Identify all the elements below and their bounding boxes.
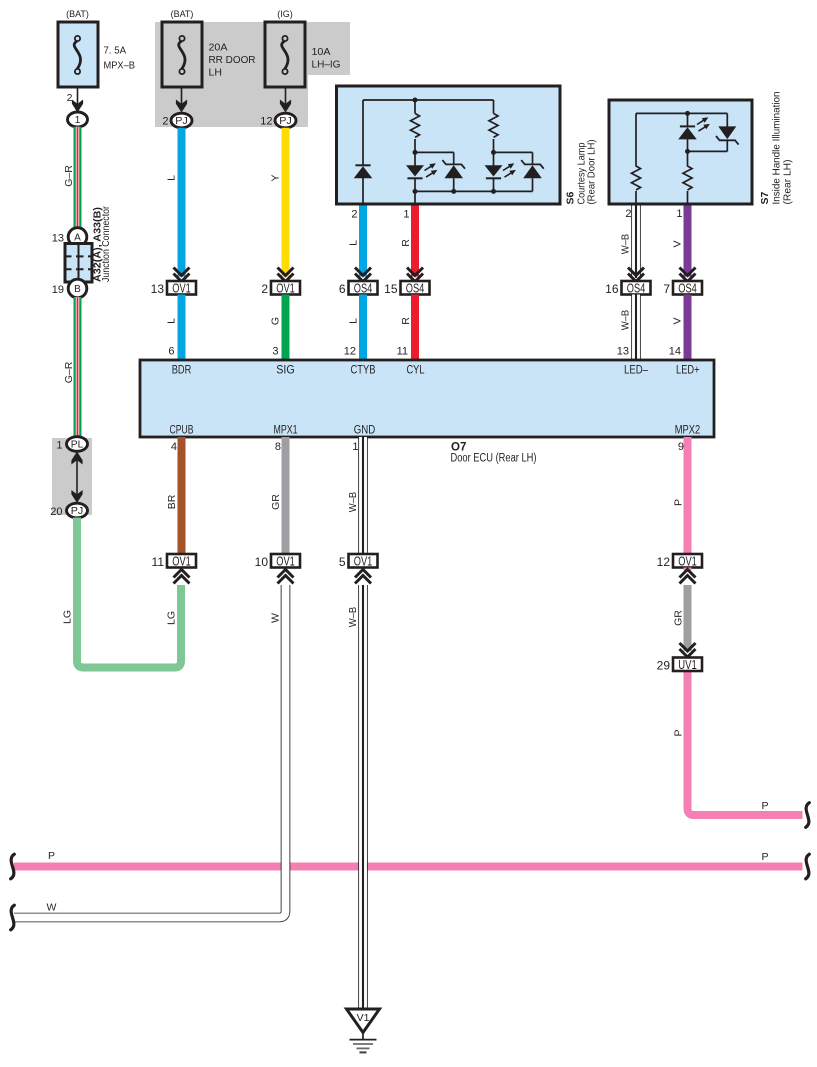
svg-text:OV1: OV1	[276, 282, 295, 296]
chevron out of 5 OV1	[355, 570, 371, 584]
svg-text:CPUB: CPUB	[170, 425, 194, 437]
node dot S6 top rail	[413, 98, 418, 103]
connector 5 OV1	[349, 554, 378, 568]
S7 zener branch wire	[726, 113, 728, 126]
svg-text:RR DOOR: RR DOOR	[209, 54, 256, 66]
wire P stub below 12 OV1	[684, 568, 692, 571]
svg-text:UV1: UV1	[678, 658, 697, 672]
svg-text:2: 2	[625, 208, 631, 220]
svg-text:1: 1	[676, 208, 682, 220]
svg-text:10A: 10A	[312, 46, 331, 58]
chevron out of 10 OV1	[278, 570, 294, 584]
wire L 13 OV1 to ECU BDR	[178, 295, 186, 361]
wire W-B 5 OV1 to ground	[358, 585, 368, 1009]
svg-text:L: L	[348, 318, 360, 324]
svg-text:SIG: SIG	[276, 365, 295, 377]
fuse F2 20A RR DOOR LH box	[162, 22, 202, 87]
svg-text:Door ECU (Rear LH): Door ECU (Rear LH)	[451, 453, 537, 465]
zener Z3 (S7)	[718, 126, 736, 139]
wire P horizontal bus (lower)	[14, 863, 803, 871]
resistor S6-R1	[411, 113, 420, 137]
svg-text:(Rear Door LH): (Rear Door LH)	[587, 140, 598, 205]
svg-text:P: P	[673, 729, 685, 736]
svg-text:OV1: OV1	[172, 555, 191, 569]
svg-text:6: 6	[339, 282, 346, 296]
svg-text:(Rear LH): (Rear LH)	[783, 160, 794, 205]
S7 top rail	[636, 112, 727, 114]
LED2 (S6)	[493, 152, 495, 165]
wire LG from PJ to OV1	[77, 518, 181, 668]
svg-text:A: A	[74, 233, 81, 244]
svg-text:P: P	[761, 800, 768, 812]
fuse F3 10A LH-IG box	[265, 22, 305, 87]
svg-text:29: 29	[657, 659, 671, 673]
svg-text:PL: PL	[71, 440, 84, 451]
svg-text:7: 7	[663, 282, 670, 296]
svg-text:LH: LH	[209, 66, 222, 78]
svg-text:W–B: W–B	[620, 234, 632, 255]
connector 11 OV1	[167, 554, 196, 568]
svg-text:PJ: PJ	[175, 116, 188, 127]
svg-text:(BAT): (BAT)	[171, 9, 194, 19]
wire R 15 OS4 to ECU CYL	[411, 295, 419, 361]
svg-text:1: 1	[75, 115, 81, 126]
svg-text:L: L	[166, 175, 178, 181]
svg-text:LED–: LED–	[624, 365, 648, 377]
node dot S7 mid	[685, 149, 690, 154]
svg-text:S6: S6	[565, 191, 577, 204]
node dot S6 right	[491, 150, 496, 155]
wire G-R node1 to junction A	[74, 127, 82, 229]
arrow into node 1	[72, 100, 83, 113]
svg-text:1: 1	[56, 440, 62, 452]
chevron out of 11 OV1	[174, 570, 190, 584]
arrow into PJ (fuse F3)	[280, 100, 291, 113]
wire P MPX2 to 12 OV1	[684, 437, 692, 554]
S6 zener Z2 branch	[494, 151, 533, 153]
svg-text:OS4: OS4	[678, 282, 697, 296]
svg-text:V: V	[672, 240, 684, 247]
wire R S6 pin1 to 15 OS4	[411, 206, 419, 277]
node dot S6 mid	[413, 150, 418, 155]
chevron into 7 OS4	[680, 268, 696, 282]
svg-text:19: 19	[52, 284, 64, 296]
svg-text:R: R	[400, 239, 412, 247]
svg-text:W–B: W–B	[347, 607, 359, 628]
svg-text:9: 9	[678, 441, 684, 453]
svg-text:W: W	[47, 902, 57, 914]
svg-text:OS4: OS4	[627, 282, 646, 296]
chevron out of 12 OV1	[680, 570, 696, 584]
wire L S6 pin2 to 6 OS4	[359, 206, 367, 277]
resistor S6-R2	[489, 113, 498, 137]
svg-text:PJ: PJ	[71, 506, 84, 517]
wire V S7 pin1 to 7 OS4	[684, 206, 692, 277]
continuation squiggle (lower bus right)	[806, 854, 810, 879]
svg-text:20A: 20A	[209, 42, 228, 54]
svg-text:P: P	[761, 851, 768, 863]
svg-text:OV1: OV1	[276, 555, 295, 569]
wire W from 10 OV1 to left edge	[14, 585, 286, 918]
svg-text:15: 15	[384, 282, 398, 296]
S6 pin stubs	[414, 191, 416, 204]
junction connector A32(A) A33(B) box	[65, 244, 92, 283]
svg-text:V: V	[672, 317, 684, 324]
svg-text:LED+: LED+	[676, 365, 700, 377]
lamp S6 box	[337, 86, 561, 204]
svg-text:CYL: CYL	[407, 365, 425, 377]
S6 right branch upper wire	[493, 100, 495, 113]
wire BR CPUB to 11 OV1	[178, 437, 186, 554]
svg-text:OV1: OV1	[354, 555, 373, 569]
fuse F3 element symbol	[282, 36, 287, 41]
svg-text:W–B: W–B	[620, 310, 632, 331]
connector 15 OS4	[401, 281, 430, 295]
svg-text:MPX2: MPX2	[675, 425, 701, 437]
wire GR MPX1 to 10 OV1	[282, 437, 290, 554]
S7 left branch wire	[635, 113, 637, 166]
connector 16 OS4	[622, 281, 651, 295]
svg-text:Y: Y	[270, 174, 282, 181]
svg-text:W–B: W–B	[347, 492, 359, 513]
svg-text:14: 14	[669, 346, 681, 358]
svg-text:8: 8	[275, 441, 281, 453]
svg-text:OV1: OV1	[172, 282, 191, 296]
wire P from UV1 to right edge	[688, 671, 803, 815]
chevron into 16 OS4	[628, 268, 644, 282]
svg-text:(IG): (IG)	[277, 9, 293, 19]
node PJ ellipse (20)	[67, 503, 88, 518]
svg-text:2: 2	[67, 92, 73, 104]
svg-text:(BAT): (BAT)	[66, 9, 89, 19]
svg-text:OS4: OS4	[354, 282, 373, 296]
S7 middle lower wire	[687, 151, 689, 166]
wire GR 12 OV1 to 29 UV1	[684, 585, 692, 651]
S6 left branch wire	[362, 100, 364, 165]
junction node B circle	[68, 279, 87, 298]
ground V1 symbol	[347, 1009, 380, 1033]
svg-text:3: 3	[272, 346, 278, 358]
wire V 7 OS4 to ECU LED+	[684, 295, 692, 361]
svg-text:16: 16	[605, 282, 619, 296]
svg-text:20: 20	[50, 506, 62, 518]
svg-text:1: 1	[403, 209, 409, 221]
wire fuse F2 to node PJ	[181, 87, 183, 104]
svg-text:G: G	[270, 317, 282, 325]
S6 right wire resistor to node	[493, 139, 495, 153]
node dots S6 bottom rail	[413, 189, 418, 194]
lamp S7 box	[609, 100, 752, 204]
svg-text:Inside Handle Illumination: Inside Handle Illumination	[772, 92, 783, 205]
wire fuse F1 to node 1	[77, 87, 79, 104]
svg-text:LG: LG	[166, 611, 178, 625]
ECU O7 box	[140, 360, 714, 437]
zener Z1 (S6)	[442, 160, 465, 169]
svg-text:12: 12	[344, 346, 356, 358]
svg-text:S7: S7	[759, 191, 771, 204]
svg-text:GND: GND	[354, 425, 376, 437]
node PL ellipse	[67, 437, 88, 452]
svg-text:W: W	[270, 613, 282, 623]
fuse panel (gray)	[155, 22, 350, 127]
svg-text:G–R: G–R	[63, 361, 75, 383]
wire G 2 OV1 to ECU SIG	[282, 295, 290, 361]
svg-text:PJ: PJ	[279, 116, 292, 127]
connector 13 OV1	[167, 281, 196, 295]
chevron into 13 OV1	[174, 268, 190, 282]
svg-text:12: 12	[657, 555, 671, 569]
svg-text:MPX–B: MPX–B	[104, 60, 136, 72]
resistor S7-R2	[683, 166, 692, 190]
svg-text:7. 5A: 7. 5A	[104, 45, 127, 57]
LED3 (S7)	[687, 113, 689, 126]
LED3 emission arrows	[697, 120, 704, 124]
svg-text:OV1: OV1	[678, 555, 697, 569]
junction node A circle	[68, 228, 87, 247]
svg-text:2: 2	[351, 209, 357, 221]
connector 6 OS4	[349, 281, 378, 295]
svg-text:L: L	[348, 240, 360, 246]
svg-text:4: 4	[171, 441, 177, 453]
connector 12 OV1	[673, 554, 702, 568]
svg-text:GR: GR	[270, 494, 282, 510]
svg-text:2: 2	[261, 282, 268, 296]
svg-text:Junction Connector: Junction Connector	[101, 205, 112, 282]
svg-text:OS4: OS4	[406, 282, 425, 296]
svg-text:6: 6	[168, 346, 174, 358]
wire L fuse PJ to 13 OV1	[178, 128, 186, 277]
node dot S7 top	[685, 111, 690, 116]
resistor S7-R1	[632, 166, 641, 190]
chevron into 29 UV1	[680, 643, 696, 657]
S6 zener Z1 branch	[415, 151, 454, 153]
svg-text:10: 10	[255, 555, 269, 569]
S6 middle branch upper wire	[414, 100, 416, 113]
svg-text:12: 12	[260, 116, 272, 128]
wire L 6 OS4 to ECU CTYB	[359, 295, 367, 361]
svg-text:13: 13	[52, 233, 64, 245]
wire G-R junction B to PL	[74, 297, 82, 438]
S6 top rail	[363, 99, 494, 101]
LED1 (S6)	[414, 152, 416, 165]
connector 2 OV1	[271, 281, 300, 295]
fuse F1 element symbol	[75, 36, 80, 41]
LED1 emission arrows	[425, 166, 432, 170]
svg-text:V1: V1	[357, 1012, 370, 1024]
node 12 PJ ellipse	[275, 113, 296, 128]
wire W-B GND to 5 OV1	[358, 437, 368, 554]
zener Z2 (S6)	[521, 160, 544, 169]
connector 29 UV1	[673, 658, 702, 672]
arrow into PJ (fuse F2)	[176, 100, 187, 113]
svg-text:13: 13	[151, 282, 165, 296]
S6 middle wire resistor to node	[414, 139, 416, 153]
svg-text:2: 2	[162, 116, 168, 128]
svg-text:5: 5	[339, 555, 346, 569]
chevron into 2 OV1	[278, 268, 294, 282]
svg-text:LH–IG: LH–IG	[312, 58, 341, 70]
continuation squiggle (lower bus left)	[11, 854, 15, 879]
continuation squiggle (W left)	[11, 905, 15, 930]
fuse F2 element symbol	[179, 36, 184, 41]
wire fuse F3 to node PJ	[285, 87, 287, 104]
svg-text:CTYB: CTYB	[351, 365, 376, 377]
svg-text:11: 11	[152, 555, 165, 569]
svg-text:MPX1: MPX1	[274, 425, 298, 437]
svg-text:11: 11	[397, 346, 408, 358]
svg-text:GR: GR	[673, 610, 685, 626]
chevron into 6 OS4	[355, 268, 371, 282]
connector 7 OS4	[673, 281, 702, 295]
svg-text:G–R: G–R	[63, 165, 75, 187]
S6 bottom rail	[415, 190, 533, 192]
svg-text:P: P	[48, 850, 55, 862]
diode D1 (S6 left)	[355, 164, 370, 166]
fuse F1 7.5A MPX-B box	[58, 22, 98, 87]
wire Y fuse PJ to 2 OV1	[282, 128, 290, 277]
svg-text:13: 13	[617, 346, 629, 358]
chevron into 15 OS4	[407, 268, 423, 282]
svg-text:B: B	[74, 284, 81, 295]
svg-text:R: R	[400, 317, 412, 325]
double arrow PL to PJ	[76, 455, 78, 500]
wire W-B S7 pin2 to 16 OS4	[631, 206, 641, 279]
continuation squiggle (upper P line right)	[806, 803, 810, 828]
svg-text:BR: BR	[166, 494, 178, 509]
svg-text:BDR: BDR	[172, 365, 192, 377]
svg-text:P: P	[673, 499, 685, 506]
svg-text:1: 1	[352, 441, 358, 453]
wire W-B 16 OS4 to ECU LED-	[631, 295, 641, 361]
connector PL-PJ panel (gray)	[52, 438, 92, 515]
LED2 emission arrows	[503, 166, 510, 170]
node 1 ellipse	[68, 112, 88, 127]
node 2 PJ ellipse	[171, 113, 192, 128]
svg-text:L: L	[166, 318, 178, 324]
connector 10 OV1	[271, 554, 300, 568]
svg-text:LG: LG	[62, 610, 74, 624]
